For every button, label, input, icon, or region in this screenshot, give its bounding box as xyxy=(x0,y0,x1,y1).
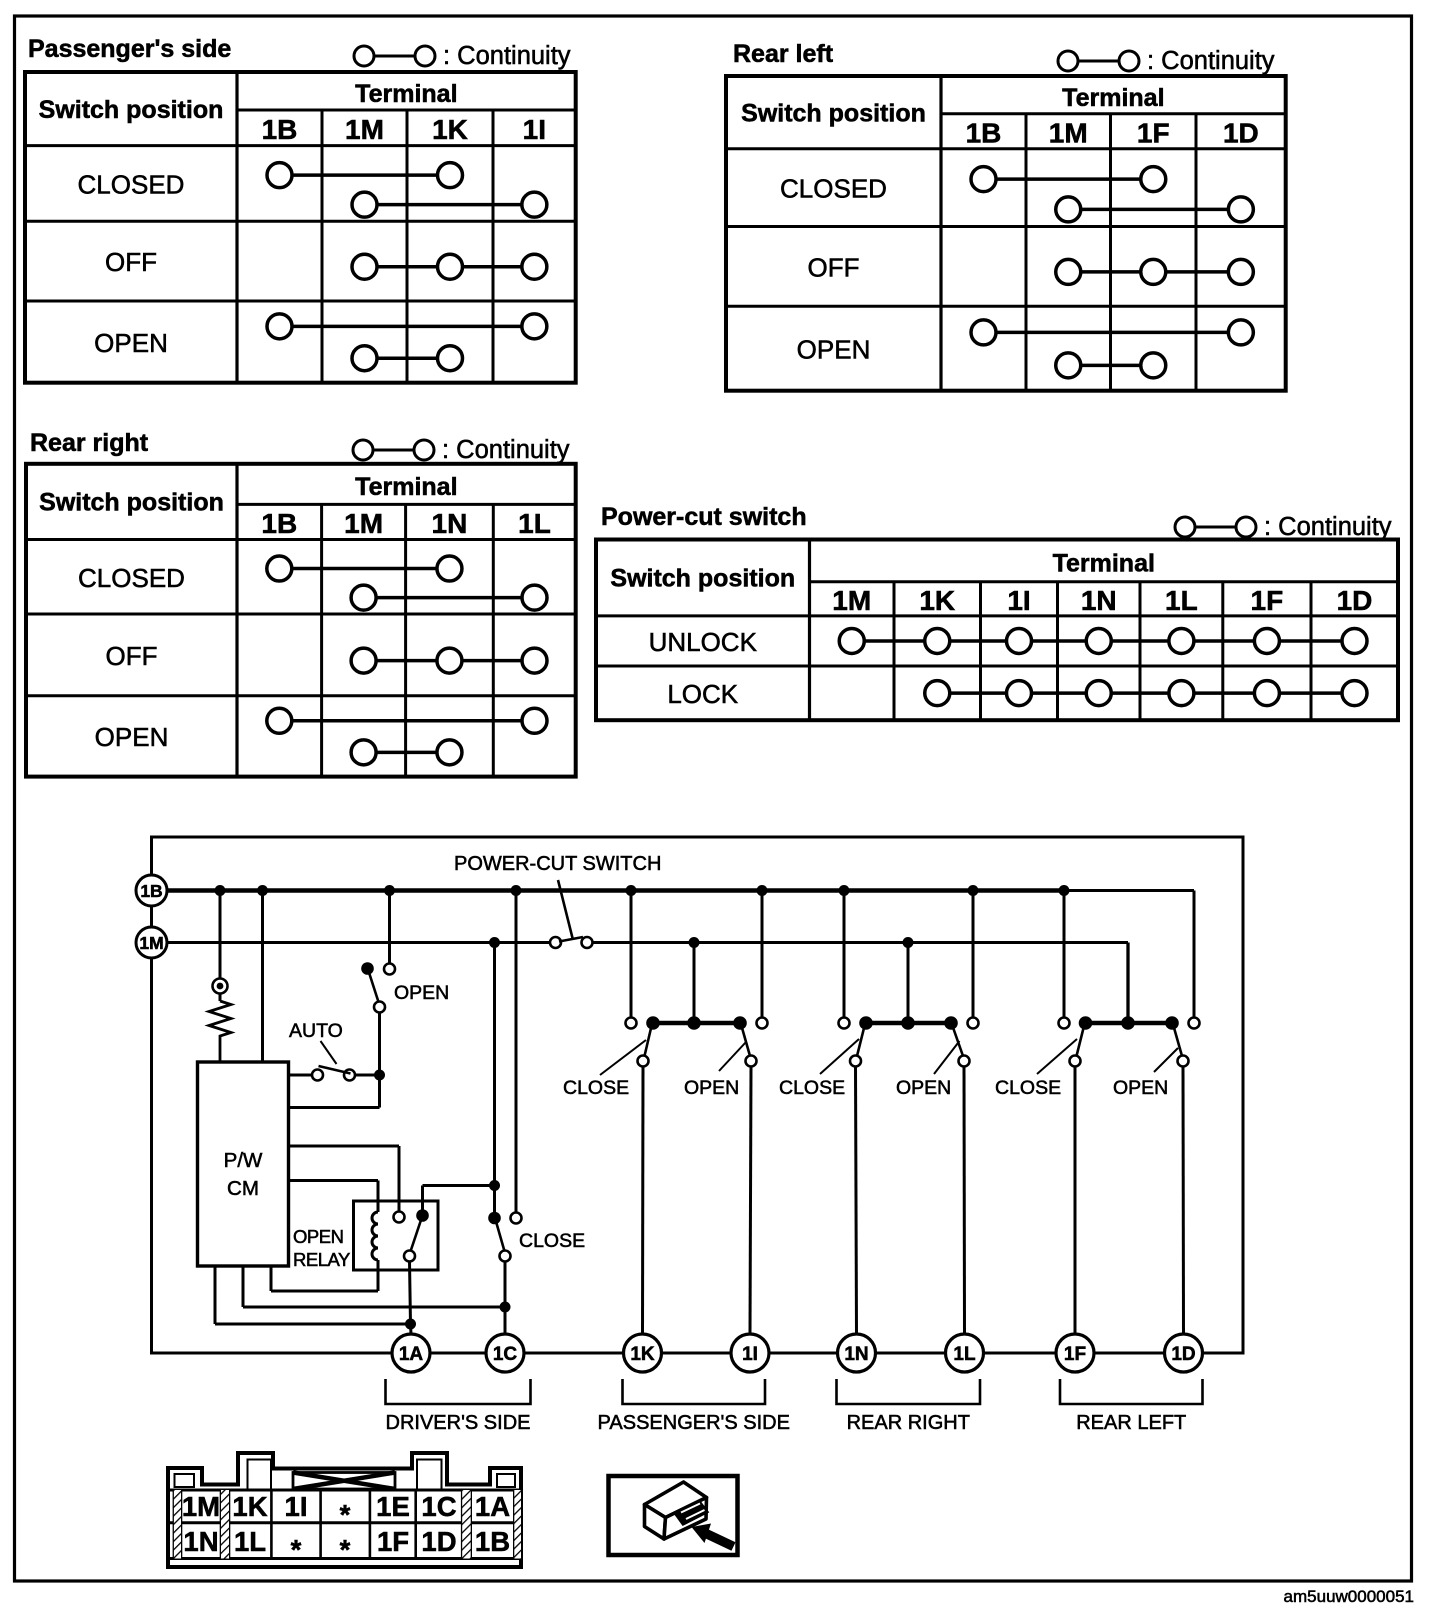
svg-text:Terminal: Terminal xyxy=(355,80,457,108)
svg-text:1F: 1F xyxy=(377,1526,409,1557)
svg-text:1L: 1L xyxy=(953,1344,976,1365)
svg-text:Rear left: Rear left xyxy=(733,40,834,68)
svg-text:1L: 1L xyxy=(234,1526,266,1557)
svg-text:1I: 1I xyxy=(1007,585,1030,616)
svg-text:OFF: OFF xyxy=(808,252,860,282)
svg-text:1M: 1M xyxy=(344,508,383,539)
svg-text:1N: 1N xyxy=(844,1344,868,1365)
svg-text:: Continuity: : Continuity xyxy=(1264,513,1392,541)
svg-text:OPEN: OPEN xyxy=(896,1077,951,1099)
svg-text:: Continuity: : Continuity xyxy=(443,42,571,70)
svg-text:DRIVER'S SIDE: DRIVER'S SIDE xyxy=(386,1412,531,1434)
svg-text:1D: 1D xyxy=(421,1526,456,1557)
svg-text:OPEN: OPEN xyxy=(797,334,871,364)
svg-text:1B: 1B xyxy=(475,1526,510,1557)
svg-text:1M: 1M xyxy=(1049,117,1088,148)
svg-text:: Continuity: : Continuity xyxy=(442,436,570,464)
svg-text:LOCK: LOCK xyxy=(667,679,738,709)
svg-text:OPEN: OPEN xyxy=(293,1226,343,1247)
svg-text:1L: 1L xyxy=(518,508,551,539)
svg-text:1A: 1A xyxy=(399,1344,424,1365)
svg-text:Passenger's side: Passenger's side xyxy=(28,35,231,63)
svg-text:1N: 1N xyxy=(1081,585,1117,616)
svg-text:CLOSE: CLOSE xyxy=(563,1077,629,1099)
svg-text:1C: 1C xyxy=(493,1344,518,1365)
svg-text:Power-cut switch: Power-cut switch xyxy=(601,503,807,531)
svg-text:OPEN: OPEN xyxy=(95,722,169,752)
svg-text:CLOSE: CLOSE xyxy=(995,1077,1061,1099)
svg-text:PASSENGER'S SIDE: PASSENGER'S SIDE xyxy=(598,1412,790,1434)
svg-text:1D: 1D xyxy=(1223,117,1259,148)
svg-text:1A: 1A xyxy=(475,1491,510,1522)
svg-text:1M: 1M xyxy=(139,933,163,953)
svg-text:1K: 1K xyxy=(232,1491,267,1522)
svg-text:CM: CM xyxy=(227,1177,259,1200)
svg-text:am5uuw0000051: am5uuw0000051 xyxy=(1284,1587,1414,1606)
svg-text:1K: 1K xyxy=(630,1344,655,1365)
svg-text:1N: 1N xyxy=(183,1526,218,1557)
svg-text:1B: 1B xyxy=(140,881,162,901)
svg-text:: Continuity: : Continuity xyxy=(1147,47,1275,75)
svg-text:1F: 1F xyxy=(1137,117,1170,148)
svg-text:Terminal: Terminal xyxy=(1053,550,1155,578)
svg-text:CLOSED: CLOSED xyxy=(780,174,887,204)
svg-text:REAR RIGHT: REAR RIGHT xyxy=(847,1412,970,1434)
svg-text:Terminal: Terminal xyxy=(1062,84,1164,112)
svg-text:CLOSED: CLOSED xyxy=(78,169,185,199)
svg-text:1C: 1C xyxy=(421,1491,456,1522)
svg-text:1B: 1B xyxy=(261,508,297,539)
svg-text:1B: 1B xyxy=(966,117,1002,148)
svg-text:CLOSE: CLOSE xyxy=(519,1230,585,1252)
svg-text:1M: 1M xyxy=(182,1491,220,1522)
svg-text:REAR LEFT: REAR LEFT xyxy=(1076,1412,1186,1434)
svg-text:CLOSED: CLOSED xyxy=(78,563,185,593)
svg-text:1L: 1L xyxy=(1165,585,1198,616)
svg-text:*: * xyxy=(291,1534,302,1565)
svg-text:Switch position: Switch position xyxy=(39,489,224,517)
svg-text:1N: 1N xyxy=(432,508,468,539)
svg-text:1I: 1I xyxy=(742,1344,758,1365)
svg-text:OFF: OFF xyxy=(106,641,158,671)
svg-text:1M: 1M xyxy=(345,114,384,145)
svg-text:*: * xyxy=(340,1499,351,1530)
svg-text:CLOSE: CLOSE xyxy=(779,1077,845,1099)
svg-text:OPEN: OPEN xyxy=(394,982,449,1004)
svg-text:Rear right: Rear right xyxy=(30,429,149,457)
svg-text:1B: 1B xyxy=(262,114,298,145)
svg-text:1K: 1K xyxy=(432,114,468,145)
svg-text:1D: 1D xyxy=(1171,1344,1195,1365)
svg-text:P/W: P/W xyxy=(224,1149,263,1172)
svg-text:POWER-CUT SWITCH: POWER-CUT SWITCH xyxy=(454,853,661,875)
svg-text:1M: 1M xyxy=(832,585,871,616)
svg-text:OPEN: OPEN xyxy=(94,328,168,358)
svg-text:1F: 1F xyxy=(1251,585,1284,616)
svg-text:1D: 1D xyxy=(1337,585,1373,616)
svg-text:RELAY: RELAY xyxy=(293,1249,350,1270)
svg-text:OFF: OFF xyxy=(105,247,157,277)
svg-text:OPEN: OPEN xyxy=(684,1077,739,1099)
svg-text:Switch position: Switch position xyxy=(39,96,224,124)
svg-text:*: * xyxy=(340,1534,351,1565)
svg-text:Switch position: Switch position xyxy=(610,565,795,593)
svg-text:AUTO: AUTO xyxy=(289,1020,343,1042)
svg-text:UNLOCK: UNLOCK xyxy=(649,627,758,657)
svg-text:Terminal: Terminal xyxy=(355,473,457,501)
svg-text:1I: 1I xyxy=(523,114,546,145)
svg-text:1F: 1F xyxy=(1064,1344,1086,1365)
svg-text:1K: 1K xyxy=(919,585,955,616)
svg-text:1E: 1E xyxy=(376,1491,410,1522)
svg-text:OPEN: OPEN xyxy=(1113,1077,1168,1099)
svg-text:Switch position: Switch position xyxy=(741,99,926,127)
svg-text:1I: 1I xyxy=(285,1491,308,1522)
